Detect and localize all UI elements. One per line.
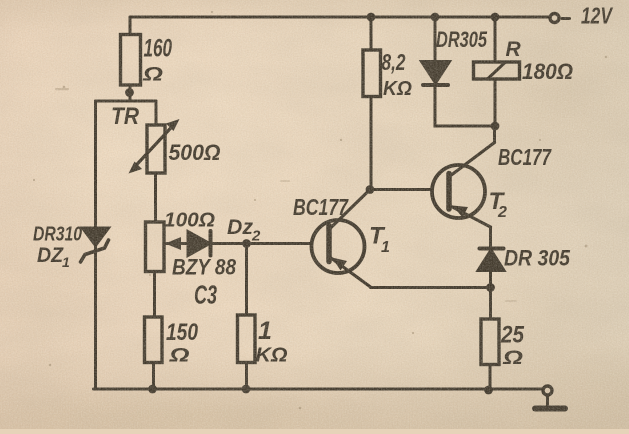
svg-text:BC177: BC177 (498, 144, 552, 170)
diode Dz2 (BZY88 C3) (188, 231, 211, 256)
transistor T1 (BC177, PNP) (312, 190, 371, 288)
svg-text:DR 305: DR 305 (504, 246, 571, 271)
svg-text:DZ: DZ (37, 244, 64, 267)
svg-text:2: 2 (497, 204, 507, 221)
svg-text:25: 25 (500, 322, 524, 349)
wire: T1 emitter run to emitter node (371, 286, 491, 289)
label: BZY 88 (172, 255, 237, 280)
diode DR305 (emitter, cathode top) (478, 249, 504, 271)
terminal: ground (543, 386, 552, 395)
wire: diode DR305 to emitter node (489, 271, 492, 320)
svg-text:C3: C3 (194, 280, 217, 310)
svg-text:12V: 12V (581, 3, 613, 29)
label: DR310 (33, 224, 82, 246)
ground symbol (535, 396, 565, 409)
resistor 160Ω (121, 35, 141, 86)
wire: potentiometer to resistor 100Ω (154, 173, 157, 222)
value label: 150 Ω (166, 319, 199, 367)
label: DR305 (freewheel) (436, 27, 488, 52)
wire: supply rail to relay R (491, 13, 500, 62)
wire: diode DR305 to relay node (435, 85, 495, 126)
diode DR305 (freewheel, anode top) (422, 62, 450, 86)
node TR: horizontal branch wire (96, 100, 157, 103)
label: T2 (489, 188, 508, 221)
svg-text:Dz: Dz (227, 216, 253, 239)
wire: ground rail (bottom) (94, 388, 542, 391)
svg-text:180Ω: 180Ω (522, 59, 573, 84)
label: R (506, 38, 522, 61)
wire: -12V supply rail (top) (130, 16, 549, 19)
svg-text:BC177: BC177 (293, 194, 349, 220)
svg-text:Ω: Ω (168, 346, 190, 367)
resistor 25Ω (481, 319, 499, 365)
label: TR (111, 103, 140, 130)
relay R 180Ω (coil) (474, 62, 520, 79)
label: C3 (194, 280, 217, 310)
value label: 100Ω (164, 210, 215, 232)
value label: 500Ω (169, 140, 221, 165)
wire: relay R to T2 collector node (494, 79, 497, 126)
svg-text:1: 1 (381, 239, 390, 256)
label: Dz2 (227, 216, 261, 245)
wire: left branch from node TR down to ground rail (94, 101, 97, 389)
wire: resistor 25Ω to ground rail (484, 365, 493, 395)
svg-text:8,2: 8,2 (382, 49, 406, 75)
wiper tap arrow into 100Ω (165, 237, 189, 250)
svg-text:BZY 88: BZY 88 (172, 255, 237, 280)
wire: node TR to potentiometer TR (155, 101, 158, 125)
potentiometer TR 500Ω (body) (147, 125, 165, 173)
svg-text:2: 2 (251, 228, 261, 245)
label: - 12V (562, 3, 613, 29)
wire: T1 collector node to T2 base (370, 188, 432, 191)
wire: supply rail to resistor 160Ω (129, 17, 132, 35)
svg-text:KΩ: KΩ (383, 78, 412, 100)
svg-text:160: 160 (144, 35, 173, 63)
junction: relay/diode node (491, 122, 500, 131)
resistor 150Ω (145, 317, 163, 363)
svg-text:TR: TR (111, 103, 140, 130)
junction: emitter node (486, 283, 495, 292)
potentiometer TR 500Ω (adjust arrow) (129, 119, 180, 174)
svg-text:100Ω: 100Ω (164, 210, 215, 232)
svg-text:DR305: DR305 (436, 27, 488, 52)
resistor 1KΩ (238, 315, 256, 363)
value label: 180Ω (522, 59, 573, 84)
resistor 8.2KΩ (363, 50, 381, 97)
svg-text:500Ω: 500Ω (169, 140, 221, 165)
svg-text:1: 1 (258, 317, 272, 345)
svg-text:150: 150 (166, 319, 199, 346)
value label: 160 Ω (142, 35, 172, 86)
wire: diode Dz2 to node A (base wire) (212, 242, 312, 245)
svg-text:1: 1 (62, 254, 70, 270)
svg-text:R: R (506, 38, 522, 61)
wire: resistor 160Ω to node TR (125, 85, 134, 101)
wire: resistor 150Ω to ground rail (148, 363, 157, 394)
label: DR 305 (504, 246, 571, 271)
svg-text:Ω: Ω (502, 348, 524, 369)
wire: resistor 1KΩ to ground rail (242, 363, 251, 394)
wire: supply rail to resistor 8.2KΩ (367, 13, 376, 50)
terminal: -12V supply (550, 14, 559, 23)
svg-text:Ω: Ω (142, 65, 164, 86)
junction: node A (242, 239, 251, 248)
wire: T2 emitter down to diode DR305 (emitter) (489, 227, 492, 248)
value label: 8,2 KΩ (382, 49, 413, 100)
resistor 100Ω (tapped) (146, 222, 165, 272)
wire: resistor 100Ω to resistor 150Ω (153, 272, 156, 318)
label: DZ1 (37, 244, 70, 270)
svg-text:DR310: DR310 (33, 224, 82, 246)
wire: resistor 8.2KΩ to T1 collector node (370, 97, 373, 190)
label: T1 (369, 223, 390, 257)
wire: node A down to resistor 1KΩ (245, 244, 248, 316)
value label: 1 KΩ (256, 317, 288, 367)
label: BC177 (T2) (498, 144, 552, 170)
svg-text:KΩ: KΩ (256, 345, 288, 367)
label: BC177 (T1) (293, 194, 349, 220)
wire: supply rail to diode DR305 (top) (431, 13, 440, 61)
value label: 25 Ω (500, 322, 524, 370)
zener diode DZ1 (81, 228, 109, 262)
transistor T2 (BC177, PNP) (432, 143, 495, 228)
junction: T1 collector node (366, 185, 375, 194)
wire: T2 collector up to relay node (493, 126, 496, 143)
